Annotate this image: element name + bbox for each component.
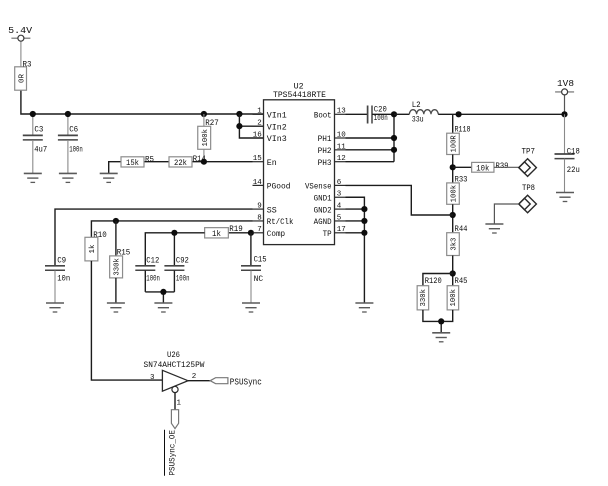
wire: 5.4V supply rail (20, 41, 22, 67)
svg-text:C3: C3 (34, 125, 43, 134)
svg-text:330k: 330k (114, 258, 122, 276)
svg-text:VIn2: VIn2 (267, 123, 287, 132)
ground (C6) (59, 172, 77, 174)
ground (C9) (46, 302, 64, 304)
svg-text:PSUSync: PSUSync (230, 377, 262, 387)
pin 15 En (253, 161, 264, 163)
junction AGND (361, 218, 367, 224)
resistor R10 (85, 237, 98, 261)
svg-text:VIn3: VIn3 (267, 135, 287, 144)
svg-text:13: 13 (337, 108, 347, 116)
svg-text:AGND: AGND (314, 218, 332, 227)
svg-text:NC: NC (254, 275, 264, 284)
svg-text:6: 6 (337, 179, 342, 187)
svg-text:R33: R33 (455, 175, 468, 184)
svg-text:Rt/Clk: Rt/Clk (267, 218, 294, 227)
svg-text:15: 15 (253, 155, 263, 163)
svg-text:17: 17 (337, 226, 346, 234)
wire: TP8 to ground (494, 204, 518, 224)
svg-text:100n: 100n (176, 274, 190, 283)
pin 7 Comp (253, 232, 264, 234)
svg-text:PSUSync_OE: PSUSync_OE (167, 430, 177, 476)
svg-text:PGood: PGood (267, 183, 291, 192)
junction R44/R120/R45 (450, 270, 456, 276)
resistor R118 (447, 133, 460, 154)
svg-text:11: 11 (337, 143, 347, 151)
svg-text:22k: 22k (174, 159, 187, 168)
svg-text:4u7: 4u7 (34, 145, 47, 154)
svg-text:16: 16 (253, 131, 263, 139)
svg-text:100n: 100n (146, 274, 160, 283)
pin 14 PGood (253, 184, 264, 186)
resistor R19 1k (205, 228, 229, 238)
svg-text:9: 9 (257, 203, 262, 211)
svg-text:R10: R10 (93, 231, 107, 240)
ground (C3) (24, 172, 42, 174)
svg-text:C92: C92 (176, 257, 189, 266)
junction C92 (171, 230, 177, 236)
junction dots on 5.4V rail (30, 111, 36, 117)
pin 12 PH3 (335, 161, 346, 163)
svg-text:VSense: VSense (305, 183, 332, 192)
svg-text:2: 2 (192, 373, 197, 381)
pin 1 (OE) bubble (172, 386, 178, 392)
wire: VIn2/VIn3 branch (239, 114, 263, 138)
capacitor C15 (241, 265, 261, 267)
svg-text:8: 8 (257, 214, 262, 222)
capacitor C20 (367, 106, 369, 124)
power symbol 1V8 (564, 95, 566, 114)
resistor R5 15k (121, 157, 144, 167)
svg-text:10n: 10n (57, 274, 70, 283)
capacitor C18 (564, 114, 566, 154)
svg-text:R27: R27 (205, 119, 219, 128)
pin 5 AGND (335, 220, 346, 222)
svg-text:3: 3 (150, 374, 155, 382)
resistor R120 (417, 286, 429, 310)
capacitor C9 (45, 265, 65, 267)
wire: VSense net (346, 185, 453, 215)
svg-text:R39: R39 (496, 162, 509, 171)
svg-text:R3: R3 (23, 60, 32, 69)
svg-text:R5: R5 (145, 155, 154, 164)
wire: IC ground net (346, 197, 365, 303)
svg-text:12: 12 (337, 155, 346, 163)
pin 6 VSense (335, 184, 346, 186)
svg-text:GND2: GND2 (314, 206, 332, 215)
resistor R39 10k (472, 162, 494, 172)
svg-text:VIn1: VIn1 (267, 112, 287, 121)
svg-text:100k: 100k (450, 289, 458, 307)
svg-text:2: 2 (257, 120, 262, 128)
svg-text:TPS54418RTE: TPS54418RTE (273, 90, 326, 100)
ground (En divider) (100, 172, 118, 174)
resistor R14 22k (169, 157, 192, 167)
svg-text:3: 3 (337, 191, 342, 199)
junction Boot/PH (391, 111, 397, 117)
svg-text:R120: R120 (425, 277, 442, 286)
ground (IC) (355, 302, 373, 304)
svg-text:1k: 1k (89, 244, 97, 253)
svg-text:C6: C6 (69, 125, 78, 134)
resistor R33 (447, 183, 460, 204)
pin 3 GND1 (335, 196, 346, 198)
svg-text:100n: 100n (374, 114, 388, 123)
wire: Comp net (228, 232, 252, 234)
svg-text:R118: R118 (455, 125, 471, 134)
svg-text:R19: R19 (229, 225, 243, 234)
pin 9 SS (253, 208, 264, 210)
junction PH1 (391, 135, 397, 141)
resistor R15 (110, 256, 123, 278)
svg-text:15k: 15k (126, 159, 139, 168)
ground (R120/R45) (432, 332, 450, 334)
svg-text:Comp: Comp (267, 230, 285, 239)
pin 4 GND2 (335, 208, 346, 210)
svg-text:5.4V: 5.4V (8, 25, 32, 36)
svg-text:C9: C9 (57, 257, 66, 266)
pin 17 TP (335, 232, 346, 234)
svg-text:L2: L2 (412, 101, 421, 110)
svg-text:5: 5 (337, 214, 342, 222)
svg-text:1k: 1k (212, 230, 221, 239)
svg-text:PH2: PH2 (318, 147, 332, 156)
ground (R15) (107, 302, 125, 304)
svg-text:7: 7 (257, 226, 262, 234)
ground (C12/C92) (154, 302, 172, 304)
junction VIn2 (236, 123, 242, 129)
junction GND2 (361, 206, 367, 212)
capacitor C3 (32, 114, 34, 135)
svg-text:14: 14 (253, 179, 263, 187)
svg-text:100k: 100k (202, 129, 210, 147)
svg-text:1: 1 (257, 108, 262, 116)
svg-text:R45: R45 (455, 277, 468, 286)
junction Comp/C15 (248, 230, 254, 236)
svg-text:TP7: TP7 (522, 148, 536, 157)
junction parallel bottom (438, 318, 444, 324)
svg-text:PH3: PH3 (318, 159, 332, 168)
svg-text:100k: 100k (451, 184, 459, 202)
wire: PH net (393, 114, 395, 161)
resistor R27 (203, 114, 205, 126)
capacitor C92 (164, 265, 184, 267)
junction R118 top (456, 111, 462, 117)
svg-text:0R: 0R (18, 74, 26, 84)
svg-text:100R: 100R (451, 135, 459, 152)
junction En/R27 (201, 159, 207, 165)
svg-text:R44: R44 (455, 225, 468, 234)
wire: R120/R45 bottoms (423, 310, 453, 322)
svg-text:100n: 100n (69, 145, 83, 154)
net flag PSUSync (210, 378, 228, 384)
svg-text:C12: C12 (146, 257, 159, 266)
wire: R39 to TP7 (494, 166, 519, 168)
net flag PSUSync_OE (171, 410, 178, 429)
svg-text:22u: 22u (567, 166, 580, 175)
wire: to R120 (423, 274, 453, 286)
overline (active low) (164, 430, 166, 476)
svg-text:1: 1 (177, 400, 182, 408)
op-amp/IC U2 TPS54418RTE (264, 100, 335, 245)
svg-text:TP8: TP8 (522, 184, 535, 193)
junction 1V8/C18 (561, 111, 567, 117)
wire: En net (192, 161, 253, 163)
capacitor C6 (67, 114, 69, 135)
wire: 1V8 output rail (438, 113, 564, 115)
pin 1 VIn1 (253, 113, 264, 115)
wire: PH to L2 (394, 113, 409, 115)
ground (C18) (556, 192, 574, 194)
svg-text:SS: SS (267, 206, 277, 215)
junction TP pin (361, 230, 367, 236)
wire: C12/C92 commons to ground (144, 271, 146, 292)
pin 16 VIn3 (253, 137, 264, 139)
svg-text:PH1: PH1 (318, 135, 332, 144)
svg-text:4: 4 (337, 203, 342, 211)
wire: SS net (55, 209, 253, 266)
junction PH2 (391, 147, 397, 153)
junction VSense divider (450, 212, 456, 218)
svg-text:GND1: GND1 (314, 194, 332, 203)
svg-text:Boot: Boot (314, 112, 332, 121)
junction R118/R33/R39 (450, 164, 456, 170)
pin 11 PH2 (335, 149, 346, 151)
svg-text:3k3: 3k3 (451, 237, 459, 250)
svg-text:C15: C15 (254, 256, 267, 265)
svg-text:330k: 330k (420, 289, 428, 307)
pin 2 (output) (188, 380, 210, 382)
wire: Rt/Clk net (91, 221, 252, 237)
junction R15 tap (113, 218, 119, 224)
ground (C15) (242, 302, 260, 304)
svg-text:1V8: 1V8 (557, 78, 574, 89)
svg-text:C18: C18 (567, 148, 580, 157)
svg-text:10: 10 (337, 131, 347, 139)
wire: Boot to C20 (346, 113, 368, 115)
junction C12/C92 ground (160, 289, 166, 295)
wire: Comp RC branch (145, 233, 204, 266)
wire: to R39 (453, 166, 472, 168)
resistor R45 (447, 286, 459, 310)
wire: R10 to gate input (91, 261, 162, 380)
svg-text:TP: TP (323, 230, 332, 239)
svg-text:R15: R15 (117, 248, 131, 257)
pin 8 Rt/Clk (253, 220, 264, 222)
ground (TP8) (485, 223, 503, 225)
pin 2 VIn2 (253, 125, 264, 127)
svg-text:SN74AHCT125PW: SN74AHCT125PW (144, 361, 205, 370)
pin 13 Boot (335, 113, 346, 115)
power symbol 5.4V (11, 37, 30, 39)
svg-text:R14: R14 (193, 155, 206, 164)
svg-text:U26: U26 (167, 351, 180, 360)
svg-text:10k: 10k (476, 164, 489, 173)
svg-text:33u: 33u (412, 116, 424, 125)
inductor L2 (409, 110, 438, 115)
capacitor C12 (135, 265, 155, 267)
resistor R44 (447, 233, 460, 256)
pin 10 PH1 (335, 137, 346, 139)
resistor R3 (15, 67, 27, 90)
svg-text:En: En (267, 159, 277, 168)
